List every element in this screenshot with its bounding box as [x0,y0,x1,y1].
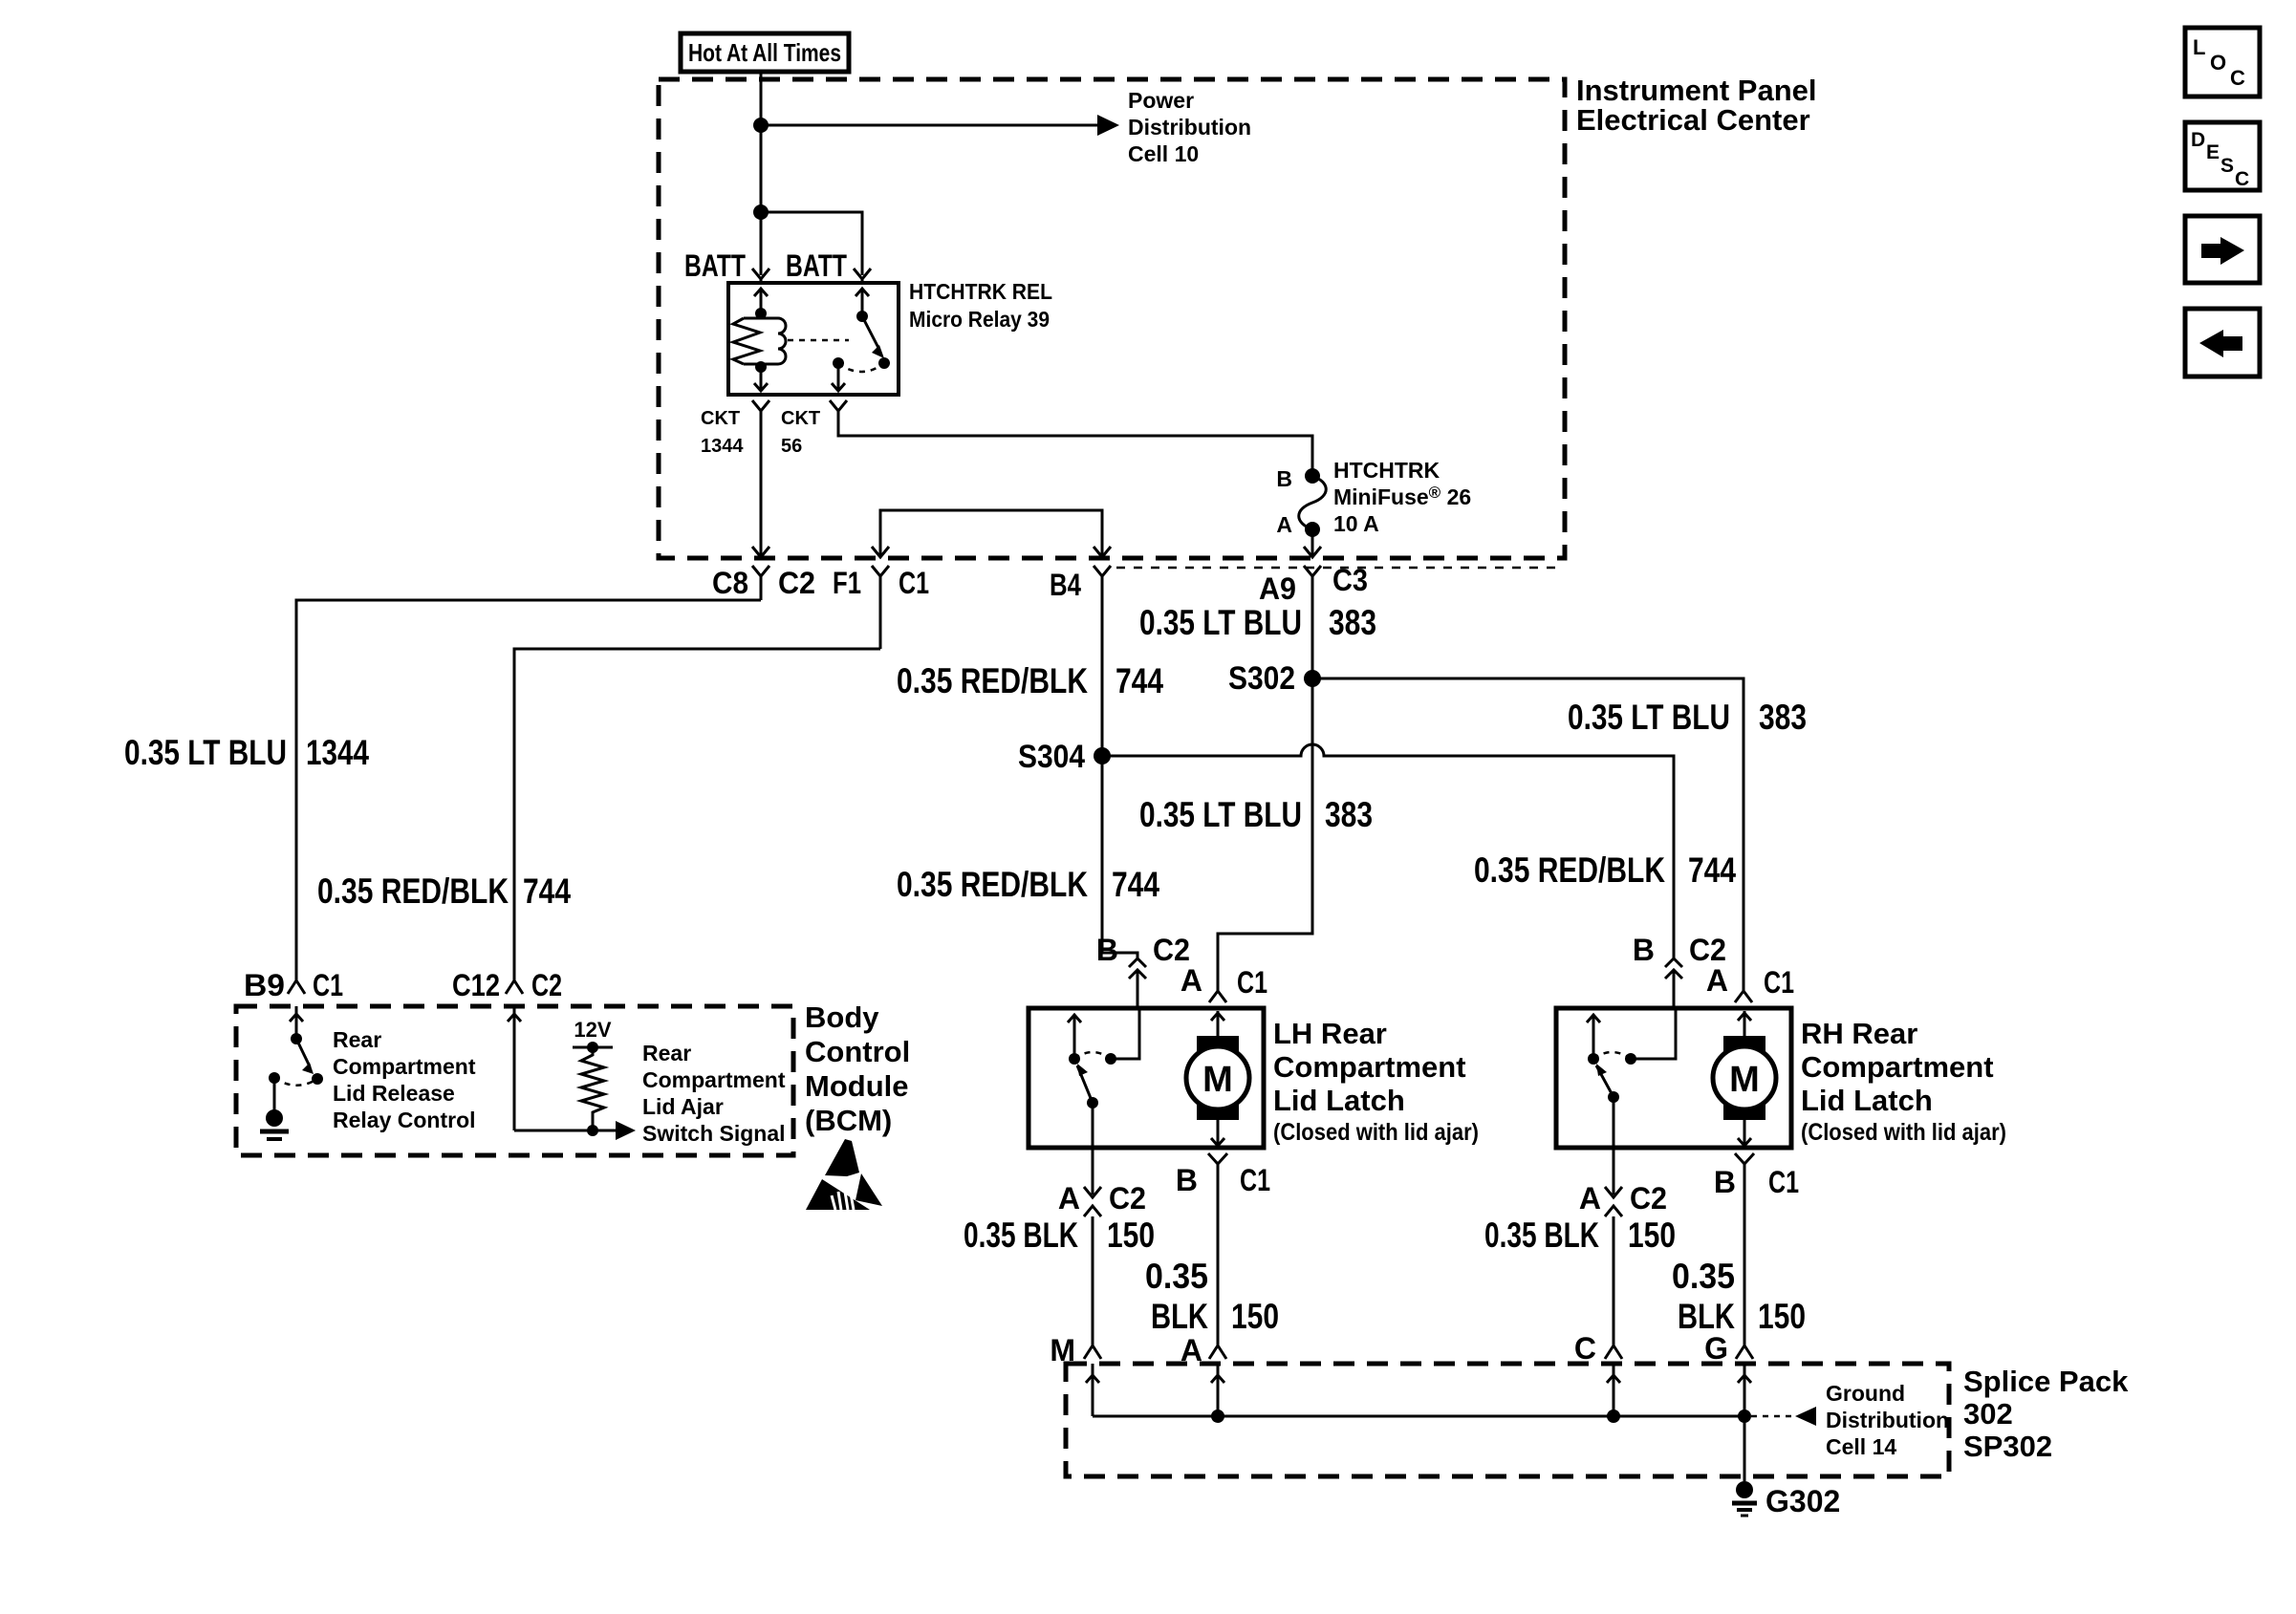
svg-text:Lid Ajar: Lid Ajar [642,1094,724,1119]
svg-text:Ground: Ground [1826,1381,1905,1406]
connector fork G (splice) [1736,1345,1753,1359]
icon: DESC box [2185,122,2260,190]
node: switch pivot [856,311,868,322]
relay coil inductor [761,313,786,367]
label: 0.35 BLK 150 stacked (LH motor) [1145,1257,1279,1336]
svg-text:12V: 12V [574,1018,611,1042]
svg-text:A9: A9 [1259,571,1296,606]
motor M LH [1186,1036,1249,1120]
node: BCM switch pivot [291,1033,302,1044]
wire: F1/C1 to BCM C12 (RED/BLK 744) [514,649,880,973]
wire: LH switch to A/C2 [1092,1103,1094,1194]
connector fork C12 (BCM) [506,973,523,994]
svg-text:C12: C12 [452,968,500,1002]
relay switch output pin arrow [832,363,845,391]
wire: RH switch ground to splice C [1613,1233,1615,1345]
LH switch travel dashed arc [1074,1052,1111,1059]
connector fork A/C1 RH [1735,991,1752,1002]
svg-text:C1: C1 [313,968,343,1002]
label: Rear Compartment Lid Release Relay Control [333,1027,476,1132]
relay HTCHTRK REL Micro Relay 39 box [728,283,899,395]
node: splice bus G [1738,1410,1751,1423]
svg-text:SP302: SP302 [1963,1430,2052,1463]
svg-text:Hot At All Times: Hot At All Times [688,38,841,67]
wire: B9 pin into BCM switch [290,1006,303,1039]
LH latch switch feed wire [1111,1008,1139,1059]
svg-text:A: A [1180,963,1202,998]
node: switch signal junction [587,1125,598,1136]
svg-text:(BCM): (BCM) [805,1104,892,1137]
Instrument Panel Electrical Center dashed box [659,79,1565,558]
svg-text:150: 150 [1628,1216,1676,1255]
svg-text:Module: Module [805,1069,909,1103]
LH motor bottom pin arrow [1211,1120,1224,1146]
RH switch pivot pin arrow [1587,1015,1600,1059]
label: 0.35 BLK 150 (LH switch) [964,1216,1155,1255]
connector fork B4 [1094,566,1111,756]
svg-text:302: 302 [1963,1397,2013,1431]
wire: S304 down to LH latch B/C2 (RED/BLK 744) [1102,756,1137,958]
svg-text:M: M [1729,1060,1760,1100]
svg-text:744: 744 [523,872,571,911]
relay coil bottom pin arrow [754,367,768,391]
node: splice bus C [1607,1410,1620,1423]
node: junction to Power Distribution [753,118,769,133]
svg-text:Lid Release: Lid Release [333,1081,455,1106]
svg-text:BLK: BLK [1678,1297,1735,1336]
svg-text:M: M [1202,1060,1233,1100]
label: 0.35 LT BLU 383 (RH) [1568,698,1807,737]
svg-text:Compartment: Compartment [1273,1050,1466,1084]
svg-text:Splice Pack: Splice Pack [1963,1365,2129,1398]
label: HTCHTRK REL / Micro Relay 39 [909,279,1052,332]
svg-text:G: G [1704,1331,1728,1366]
relay coil top pin arrow [754,289,768,313]
connector fork A (splice) [1209,1345,1226,1359]
svg-text:C2: C2 [1109,1181,1146,1216]
connector A/C2 RH (chevron + fork) [1605,1187,1622,1233]
splice pin stub G [1738,1364,1751,1416]
svg-text:CKT: CKT [701,408,740,429]
node: LH switch pivot [1069,1053,1080,1065]
connector B/C2 LH (double chevron) [1129,958,1146,1008]
svg-text:744: 744 [1116,661,1163,700]
label: 0.35 LT BLU 1344 [124,733,369,772]
svg-text:B: B [1714,1165,1736,1199]
svg-text:1344: 1344 [701,436,744,457]
svg-text:Lid Latch: Lid Latch [1801,1084,1933,1117]
connector fork: relay BATT coil pin [752,269,769,285]
wire: battery feed from Hot At All Times down to relay BATT [760,72,763,275]
svg-text:Lid Latch: Lid Latch [1273,1084,1405,1117]
wire: splice to G302 ground [1744,1416,1746,1481]
label: Instrument Panel Electrical Center [1576,74,1817,137]
wire: LH switch ground to splice M [1092,1233,1094,1345]
svg-text:B4: B4 [1050,568,1081,602]
arrow: Switch Signal [616,1121,636,1140]
svg-text:B: B [1096,933,1118,967]
icon: back arrow box [2185,309,2260,377]
svg-text:A: A [1276,512,1292,537]
wire: RH motor ground to splice G [1744,1177,1746,1345]
svg-text:C2: C2 [1689,933,1726,967]
svg-text:Electrical Center: Electrical Center [1576,103,1810,137]
svg-text:Switch Signal: Switch Signal [642,1121,786,1146]
svg-text:Distribution: Distribution [1128,115,1251,140]
arrow: LH switch arm head [1077,1064,1088,1076]
svg-text:0.35 BLK: 0.35 BLK [1484,1216,1599,1255]
svg-text:HTCHTRK REL: HTCHTRK REL [909,279,1052,304]
svg-text:0.35 RED/BLK: 0.35 RED/BLK [317,872,509,911]
svg-text:C8: C8 [712,566,748,600]
label: Splice Pack 302 SP302 [1963,1365,2129,1463]
svg-text:O: O [2210,51,2226,75]
LH switch arm [1077,1065,1093,1103]
svg-text:744: 744 [1112,865,1159,904]
label: LH Rear Compartment Lid Latch [1273,1017,1479,1146]
wire: S302 to RH latch A/C1 (LT BLU 383) [1312,678,1744,991]
RH switch arm [1596,1065,1614,1097]
label: RH Rear Compartment Lid Latch [1801,1017,2006,1146]
RH latch switch feed wire [1631,1008,1676,1059]
svg-text:A: A [1706,963,1728,998]
label: Rear Compartment Lid Ajar Switch Signal [642,1041,786,1146]
wire: C12 pin into BCM [508,1006,521,1130]
svg-text:0.35: 0.35 [1145,1257,1208,1296]
svg-text:BATT: BATT [684,248,746,283]
svg-text:C2: C2 [531,968,562,1002]
wire: RH switch to A/C2 [1613,1097,1615,1194]
12V supply bar [573,1046,613,1049]
wire: branch to relay switch BATT [761,212,862,275]
svg-text:S302: S302 [1228,660,1295,697]
label: Ground Distribution Cell 14 [1826,1381,1949,1459]
svg-text:Compartment: Compartment [1801,1050,1994,1084]
svg-text:C1: C1 [1768,1165,1799,1199]
svg-text:Rear: Rear [642,1041,691,1065]
node: BCM switch contact right [312,1073,323,1085]
node S302 [1304,670,1321,687]
wire: CKT 1344 down to C8 [760,423,763,556]
node: LH switch lower contact [1087,1097,1098,1108]
node: junction to second BATT [753,204,769,220]
svg-text:(Closed with lid ajar): (Closed with lid ajar) [1801,1119,2006,1146]
svg-text:MiniFuse® 26: MiniFuse® 26 [1333,484,1471,509]
label: 0.35 LT BLU 383 (LH) [1139,795,1373,834]
label: CKT 1344 [701,408,744,457]
svg-text:S: S [2220,155,2234,177]
ground symbol (BCM) [260,1109,289,1139]
svg-text:C2: C2 [1153,933,1190,967]
connector fork C (splice) [1605,1345,1622,1359]
svg-text:HTCHTRK: HTCHTRK [1333,458,1440,483]
svg-text:Compartment: Compartment [642,1067,786,1092]
LH switch pivot pin arrow [1068,1015,1081,1059]
svg-text:383: 383 [1329,603,1376,642]
svg-text:383: 383 [1325,795,1373,834]
node: RH switch lower contact [1608,1091,1619,1103]
svg-text:C: C [2230,66,2245,90]
wire: S304 to RH latch B/C2 with hop over LT BLU (RED/BLK 744) [1102,744,1674,958]
BCM relay-control switch arm [296,1039,310,1066]
svg-text:A: A [1579,1181,1601,1216]
label: CKT 56 [781,408,820,457]
RH motor bottom pin arrow [1738,1120,1751,1146]
svg-text:0.35 RED/BLK: 0.35 RED/BLK [897,661,1088,700]
RH motor top pin arrow [1738,1011,1751,1036]
wire: to Power Distribution [761,124,1101,127]
relay coil resistor [733,318,778,364]
connector fork B9 (BCM) [288,973,305,994]
svg-text:C1: C1 [1240,1163,1270,1197]
svg-text:0.35 LT BLU: 0.35 LT BLU [1139,795,1302,834]
svg-text:150: 150 [1107,1216,1155,1255]
svg-text:B: B [1276,466,1292,491]
relay control dashed link [788,339,849,342]
node: switch contact left (output) [833,357,844,369]
arrow: into connector B4 [1094,547,1111,557]
Hot At All Times label box [681,33,849,72]
svg-text:LH Rear: LH Rear [1273,1017,1387,1050]
relay switch travel dashed arc [838,363,884,372]
arrow: into connector F1 [872,547,889,557]
label: Body Control Module (BCM) [805,1001,910,1137]
node: coil bottom [755,361,767,373]
ESD sensitivity symbol [806,1139,882,1210]
Splice Pack 302 dashed box [1066,1364,1949,1476]
splice bus wire [1093,1415,1744,1418]
svg-text:0.35 LT BLU: 0.35 LT BLU [124,733,287,772]
connector B/C2 RH (double chevron) [1665,958,1682,1008]
label: 0.35 RED/BLK 744 (BCM branch) [317,872,571,911]
svg-text:BLK: BLK [1151,1297,1208,1336]
wire: LH motor ground to splice A [1217,1177,1220,1345]
svg-text:B: B [1633,933,1655,967]
icon: LOC box [2185,28,2260,97]
node: RH switch pivot [1588,1053,1599,1065]
relay switch common pin arrow [856,289,869,316]
node: RH switch contact [1625,1053,1636,1065]
arrow: relay switch arm head [872,345,884,358]
arrow: Power Distribution off-page [1097,115,1119,136]
svg-text:Compartment: Compartment [333,1054,476,1079]
arrow: CKT 1344 into connector C8 [752,547,769,557]
svg-text:56: 56 [781,436,802,457]
connector fork M (splice) [1084,1345,1101,1359]
connector fork C8 [752,566,769,600]
svg-text:C1: C1 [1764,965,1794,1000]
LH motor top pin arrow [1211,1011,1224,1036]
svg-text:0.35 RED/BLK: 0.35 RED/BLK [897,865,1088,904]
svg-text:Relay Control: Relay Control [333,1108,476,1132]
label: Power Distribution Cell 10 [1128,88,1251,166]
svg-text:F1: F1 [833,566,861,600]
svg-text:Distribution: Distribution [1826,1408,1949,1432]
svg-text:A: A [1058,1181,1080,1216]
dashed wire: ground distribution reference [1751,1415,1793,1418]
node: LH switch contact [1105,1053,1116,1065]
svg-text:CKT: CKT [781,408,820,429]
RH Rear Compartment Lid Latch box [1556,1008,1791,1148]
svg-text:Instrument Panel: Instrument Panel [1576,74,1817,107]
node: coil top [755,308,767,319]
connector fork B/C1 RH [1735,1153,1754,1177]
svg-text:0.35 BLK: 0.35 BLK [964,1216,1078,1255]
splice pin stub M [1086,1364,1099,1416]
wire: fuse A down to connector C3 [1311,529,1314,556]
fuse HTCHTRK MiniFuse 26 [1299,468,1327,537]
icon: forward arrow box [2185,216,2260,283]
arrow: RH switch arm head [1596,1064,1607,1076]
label: 0.35 LT BLU 383 (C3 drop) [1139,603,1376,642]
connector fork C3 [1304,566,1321,671]
connector fork B/C1 LH [1208,1153,1227,1177]
node: switch contact right [878,357,890,369]
svg-text:C: C [2235,168,2249,190]
wire: F1 to B4 jumper inside IPEC [880,510,1102,556]
connector C3 face dashed line [1116,567,1558,570]
svg-text:0.35 LT BLU: 0.35 LT BLU [1139,603,1302,642]
svg-text:G302: G302 [1765,1484,1840,1518]
svg-text:RH Rear: RH Rear [1801,1017,1917,1050]
wire: signal to arrow [514,1130,619,1132]
svg-text:0.35 LT BLU: 0.35 LT BLU [1568,698,1730,737]
svg-text:(Closed with lid ajar): (Closed with lid ajar) [1273,1119,1479,1146]
svg-text:D: D [2191,129,2205,151]
node: splice bus A [1211,1410,1224,1423]
svg-text:Control: Control [805,1035,910,1068]
relay switch arm [862,316,878,348]
svg-text:BATT: BATT [786,248,847,283]
svg-text:C1: C1 [899,566,929,600]
LH Rear Compartment Lid Latch box [1029,1008,1264,1148]
svg-text:C3: C3 [1332,563,1368,597]
svg-text:C: C [1574,1331,1596,1366]
svg-text:B: B [1176,1163,1198,1197]
connector fork: relay CKT 1344 pin [752,400,769,423]
svg-text:150: 150 [1231,1297,1279,1336]
svg-text:L: L [2193,35,2205,59]
label: HTCHTRK MiniFuse 26 10 A [1333,458,1471,536]
svg-text:S304: S304 [1018,739,1085,775]
svg-text:Power: Power [1128,88,1194,113]
connector fork: relay BATT switch pin [854,269,871,285]
motor M RH [1713,1036,1776,1120]
splice pin stub A [1211,1364,1224,1416]
ground G302 symbol [1732,1481,1757,1516]
label: 0.35 RED/BLK 744 (B4 drop) [897,661,1163,700]
svg-text:744: 744 [1688,850,1736,890]
wire: contact to ground [273,1078,276,1110]
connector fork: relay CKT 56 pin [830,400,847,423]
label: 0.35 BLK 150 (RH switch) [1484,1216,1676,1255]
BCM switch travel dashed arc [274,1078,317,1086]
node S304 [1094,747,1111,764]
svg-text:0.35 RED/BLK: 0.35 RED/BLK [1474,850,1665,890]
svg-text:C2: C2 [1630,1181,1667,1216]
connector A/C2 LH (chevron + fork) [1084,1187,1101,1233]
node: 12V tap [587,1042,598,1053]
svg-text:C1: C1 [1237,965,1267,1000]
label: 0.35 RED/BLK 744 (LH) [897,865,1159,904]
svg-text:Cell 10: Cell 10 [1128,141,1199,166]
resistor: BCM pull-up [581,1047,604,1130]
svg-text:Micro Relay 39: Micro Relay 39 [909,307,1050,332]
connector fork F1 [872,566,889,649]
svg-text:C2: C2 [778,566,815,600]
wire: C8 to BCM B9 (LT BLU 1344) [296,600,761,973]
arrow: fuse output into connector C3 [1304,547,1321,557]
Body Control Module dashed box [236,1006,793,1155]
svg-text:Rear: Rear [333,1027,381,1052]
wire: S302 down to LH latch A/C1 (LT BLU 383) [1218,678,1312,991]
svg-text:10 A: 10 A [1333,511,1379,536]
svg-text:E: E [2206,141,2220,163]
svg-text:1344: 1344 [306,733,369,772]
RH switch travel dashed arc [1593,1052,1631,1059]
svg-text:383: 383 [1759,698,1807,737]
label: 0.35 RED/BLK 744 (RH) [1474,850,1736,890]
svg-text:B9: B9 [244,968,285,1002]
arrow: Ground Distribution off-page [1795,1407,1816,1426]
splice pin stub C [1607,1364,1620,1416]
svg-text:Cell 14: Cell 14 [1826,1434,1896,1459]
svg-text:150: 150 [1758,1297,1806,1336]
svg-text:Body: Body [805,1001,879,1034]
connector fork A/C1 LH [1209,991,1226,1002]
svg-text:0.35: 0.35 [1672,1257,1735,1296]
wire: CKT 56 over to fuse B [838,423,1312,470]
label: 0.35 BLK 150 stacked (RH motor) [1672,1257,1806,1336]
arrow: BCM switch arm head [302,1063,314,1074]
node: BCM switch contact left [269,1072,280,1084]
